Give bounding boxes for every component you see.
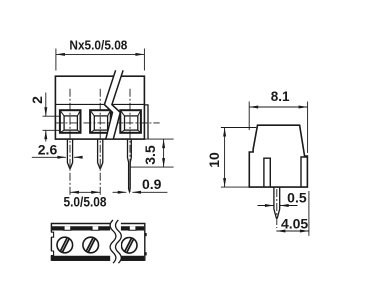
break line front left (104, 70, 115, 139)
svg-text:8.1: 8.1 (271, 89, 290, 104)
left leg side view (264, 158, 270, 187)
arrow right-pointing (265, 204, 274, 207)
arrow left (70, 191, 79, 194)
svg-text:0.9: 0.9 (142, 176, 162, 192)
leader left (113, 191, 127, 193)
arrow right-pointing (118, 191, 127, 194)
dimension line (276, 230, 309, 232)
body outline side view (249, 125, 307, 187)
horizontal center line through clamps (55, 122, 159, 124)
extension line right (308, 191, 310, 236)
leader left (258, 205, 274, 207)
body outline front view (55, 76, 144, 139)
arrow right (300, 230, 309, 233)
clamp opening unit 3 outer square (120, 110, 141, 133)
arrow left (276, 230, 285, 233)
arrow down (223, 178, 226, 187)
svg-text:5.0/5.08: 5.0/5.08 (64, 194, 107, 209)
left edge notch upper outline (51, 232, 54, 237)
svg-text:2.6: 2.6 (38, 141, 58, 157)
pin 1 front view (67, 139, 72, 168)
thin inner boundary continuing across top-bar gaps (63, 229, 137, 231)
vertical center line unit 1 (69, 89, 71, 195)
left edge notch lower (white cut) (50, 251, 54, 256)
extension line left (248, 102, 250, 131)
svg-text:4.05: 4.05 (281, 215, 308, 231)
dimension line (56, 53, 144, 55)
svg-text:0.5: 0.5 (287, 189, 307, 205)
right edge tab lower (145, 252, 147, 255)
arrow up (162, 139, 165, 148)
arrow right (299, 106, 308, 109)
leader left (32, 156, 66, 158)
pin center line side view (276, 189, 278, 228)
step line across body front (55, 103, 144, 105)
svg-text:2: 2 (29, 96, 45, 104)
pin 2 front view (98, 139, 103, 168)
extension line right (143, 49, 145, 71)
dimension line (70, 191, 100, 193)
clamp opening unit 1 inner square (64, 116, 77, 130)
screw 3 slot (125, 238, 134, 253)
screw 1 slot (60, 238, 69, 253)
dimension line (249, 106, 307, 108)
top view outer outline (51, 224, 144, 261)
left edge notch upper (white cut) (50, 232, 54, 237)
screw 3 circle (121, 238, 137, 254)
arrow right-pointing (57, 156, 66, 159)
vertical center line unit 3 (129, 89, 131, 192)
svg-text:Nx5.0/5.08: Nx5.0/5.08 (69, 37, 127, 52)
break band front view (white fill) (105, 70, 124, 138)
extension line top (221, 127, 256, 129)
clamp opening unit 1 outer square (60, 110, 81, 133)
extension line bottom (130, 166, 174, 168)
pin 3 front view (long with needle) (128, 139, 132, 191)
top view thick bottom wall (52, 256, 144, 261)
gaps in top wall above screws (65, 226, 136, 230)
arrow right (91, 191, 100, 194)
screw 2 slot (86, 238, 95, 253)
leader right (74, 156, 82, 158)
dimension line (163, 139, 165, 167)
dimension line with tails (45, 93, 47, 142)
arrow down to top ext (44, 107, 47, 116)
leader right (132, 191, 167, 193)
arrow down (162, 158, 165, 167)
clamp opening unit 2 outer square (90, 110, 111, 133)
right interlock tab front view (144, 105, 148, 139)
break band top view (white) (110, 219, 121, 264)
break wavy line right (116, 220, 122, 263)
break wavy line left (110, 220, 116, 263)
chamfer diagonals unit 3 (120, 110, 141, 133)
left edge notch lower outline (51, 251, 54, 256)
dimension line (224, 128, 226, 188)
right edge tab upper (145, 233, 147, 236)
right leg side view (301, 157, 307, 187)
arrow left (249, 106, 258, 109)
arrow left-pointing (74, 156, 83, 159)
arrow left (56, 53, 65, 56)
svg-text:10: 10 (206, 152, 222, 168)
screw 2 circle (83, 237, 99, 253)
extension line top (body bottom extended) (55, 138, 173, 140)
clamp opening unit 2 inner square (94, 116, 107, 130)
clamp opening unit 3 inner square (125, 116, 138, 130)
extension line bottom (body bottom extended) (221, 186, 249, 188)
arrow right (135, 53, 144, 56)
arrow left-pointing (280, 204, 289, 207)
extension line left (55, 49, 57, 71)
extension line right (307, 102, 309, 154)
arrow left-pointing (132, 191, 141, 194)
pin side view (274, 187, 280, 218)
vertical center line unit 2 (99, 89, 101, 195)
top view thick top wall (52, 226, 144, 230)
chamfer diagonals unit 1 (60, 110, 81, 133)
screw 1 circle (57, 237, 73, 253)
extension line top (43, 115, 60, 117)
leader right (280, 205, 298, 207)
arrow up to bottom ext (44, 130, 47, 139)
break line front right (112, 70, 123, 139)
arrow up (223, 128, 226, 137)
extension line bottom (43, 129, 60, 131)
chamfer diagonals unit 2 (90, 110, 111, 133)
svg-text:3.5: 3.5 (142, 145, 158, 165)
